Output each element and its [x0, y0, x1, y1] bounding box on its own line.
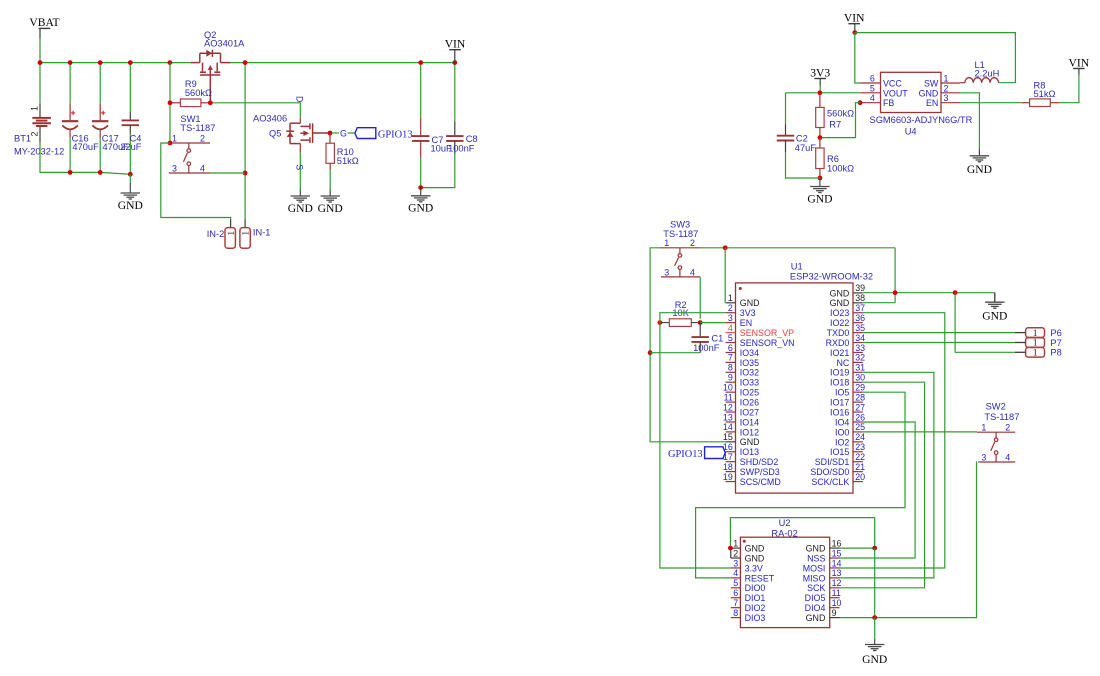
svg-text:IO35: IO35 [740, 358, 759, 368]
U1 pin 38 GND [853, 302, 863, 304]
wire SW3 pin1 gnd to U1 pin15 [650, 248, 726, 442]
U1 pin 6 IO34 [726, 351, 736, 353]
capacitor C16 470uF [69, 63, 71, 104]
svg-text:GND: GND [807, 192, 832, 205]
U1 pin 7 IO35 [726, 361, 736, 363]
svg-text:22: 22 [855, 452, 865, 462]
svg-text:DIO3: DIO3 [745, 613, 766, 623]
U1 pin 25 IO0 [853, 431, 863, 433]
wire VBAT down [39, 39, 41, 63]
svg-text:IO5: IO5 [835, 388, 849, 398]
svg-text:TS-1187: TS-1187 [663, 229, 698, 239]
junction gnd rail / pin38 [893, 290, 898, 295]
svg-text:GND: GND [740, 437, 760, 447]
resistor R6 100k [819, 138, 821, 148]
wire VIN to junction [854, 30, 856, 33]
svg-text:6: 6 [870, 74, 875, 84]
svg-text:30: 30 [855, 373, 865, 383]
svg-text:8: 8 [728, 363, 733, 373]
svg-text:MOSI: MOSI [803, 563, 826, 573]
svg-text:1: 1 [664, 238, 669, 248]
resistor R8 body [1030, 99, 1051, 107]
U1 pin 35 TXD0 [853, 332, 863, 334]
svg-text:DIO0: DIO0 [745, 583, 766, 593]
node G wire to GPIO13 flag [332, 132, 339, 134]
svg-text:3V3: 3V3 [810, 66, 830, 79]
U4 pin 5 VOUT [860, 92, 880, 94]
svg-text:ESP32-WROOM-32: ESP32-WROOM-32 [790, 272, 873, 282]
resistor R9 560k [180, 99, 201, 107]
switch SW3 TS-1187 [660, 248, 700, 277]
U2 pin 3 3.3V [731, 567, 741, 569]
junction SW3 to U1 pin1 [723, 245, 728, 250]
svg-text:1: 1 [981, 423, 986, 433]
U1 pin 10 IO25 [726, 391, 736, 393]
wire Q5 source to gnd [299, 153, 301, 190]
U1 pin 17 SHD/SD2 [726, 461, 736, 463]
U1 pin 16 IO13 [726, 451, 736, 453]
U4 pin 6 VCC [860, 82, 880, 84]
svg-text:FB: FB [883, 98, 894, 108]
U1 pin 21 SDO/SD0 [853, 471, 863, 473]
svg-text:25: 25 [855, 422, 865, 432]
wire U1 pin38 gnd [863, 302, 895, 304]
wire C4 junction to gnd [129, 174, 131, 183]
svg-text:DIO2: DIO2 [745, 603, 766, 613]
U1 pin 29 IO5 [853, 391, 863, 393]
svg-text:GPIO13: GPIO13 [668, 449, 703, 460]
svg-text:3: 3 [664, 267, 669, 277]
svg-text:GPIO13: GPIO13 [378, 130, 413, 141]
wire 3V3 stub [819, 79, 821, 86]
svg-text:27: 27 [855, 402, 865, 412]
svg-text:9: 9 [832, 608, 837, 618]
capacitor C17 470uF [99, 63, 101, 104]
wire gnd to P8 [955, 293, 1015, 353]
svg-text:24: 24 [855, 432, 865, 442]
junction U2 pin1 [728, 546, 733, 551]
svg-text:TS-1187: TS-1187 [984, 412, 1019, 422]
svg-text:6: 6 [733, 588, 738, 598]
svg-text:4: 4 [733, 568, 738, 578]
svg-text:6: 6 [728, 343, 733, 353]
wire R10 to gnd [329, 170, 331, 189]
wire VBAT bus left [40, 62, 191, 64]
svg-text:IN-2: IN-2 [207, 229, 225, 239]
U1 pin 18 SWP/SD3 [726, 471, 736, 473]
svg-text:51kΩ: 51kΩ [337, 156, 359, 166]
battery BT1 MY-2032-12 [39, 63, 41, 104]
U1 pin 2 3V3 [726, 312, 736, 314]
U2 pin 15 NSS [830, 557, 840, 559]
svg-text:IO21: IO21 [830, 348, 849, 358]
resistor R10 51k [329, 133, 331, 143]
svg-text:P7: P7 [1050, 338, 1061, 348]
svg-text:GND: GND [967, 163, 992, 176]
wire R8 to VIN flag [1059, 75, 1079, 103]
ground below U4 [970, 148, 989, 162]
svg-text:3: 3 [981, 452, 986, 462]
svg-text:2: 2 [944, 83, 949, 93]
ground below Q5 [291, 190, 310, 203]
svg-text:GND: GND [745, 544, 765, 554]
svg-text:IO25: IO25 [740, 388, 759, 398]
svg-text:GND: GND [745, 553, 765, 563]
svg-text:1: 1 [728, 293, 733, 303]
junction VIN boost [852, 30, 857, 35]
wire down to U1 pin1 [724, 248, 726, 303]
junction R6 gnd [818, 176, 823, 181]
wire gnd loop over U2 [730, 518, 874, 549]
svg-text:S: S [294, 164, 304, 170]
U1 pin 12 IO27 [726, 411, 736, 413]
junction gnd bus C17 [98, 170, 103, 175]
wire VIN stub [854, 24, 856, 30]
svg-text:16: 16 [832, 538, 842, 548]
svg-text:10: 10 [723, 382, 733, 392]
svg-text:P6: P6 [1050, 328, 1061, 338]
svg-text:9: 9 [728, 373, 733, 383]
svg-text:3.3V: 3.3V [745, 563, 763, 573]
ground right of U1 [985, 293, 1004, 309]
svg-text:47uF: 47uF [795, 143, 817, 153]
svg-text:D: D [295, 96, 305, 102]
wire VOUT to 3V3 rail [786, 92, 861, 94]
svg-text:IO27: IO27 [740, 407, 759, 417]
wire bus to SW1/R9 [169, 63, 171, 143]
svg-text:IO14: IO14 [740, 417, 759, 427]
wire gnd flag stub [994, 293, 996, 302]
junction gnd trunk pin9 [872, 615, 877, 620]
svg-text:2.2uH: 2.2uH [975, 68, 1000, 78]
svg-text:33: 33 [855, 343, 865, 353]
U1 pin 20 SCK/CLK [853, 481, 863, 483]
svg-text:SW2: SW2 [986, 401, 1006, 411]
junction gnd rail / P8 [953, 290, 958, 295]
resistor R10 body [326, 143, 334, 163]
capacitor C2 47uF [785, 93, 787, 125]
wire IO19 to U2 MISO [840, 372, 934, 578]
svg-text:22uF: 22uF [120, 142, 142, 152]
U1 pin 3 EN [726, 322, 736, 324]
svg-text:39: 39 [855, 283, 865, 293]
wire IO4 to U2 NSS [840, 422, 916, 558]
svg-text:GND: GND [919, 88, 939, 98]
junction R2 left 3V3 [658, 320, 663, 325]
ground below R6 [810, 178, 829, 193]
svg-text:R6: R6 [827, 154, 839, 164]
svg-text:U4: U4 [905, 126, 917, 136]
svg-text:19: 19 [723, 472, 733, 482]
svg-text:MY-2032-12: MY-2032-12 [14, 147, 64, 157]
svg-text:GND: GND [862, 653, 887, 666]
svg-text:20: 20 [855, 472, 865, 482]
U2 pin 13 MISO [830, 577, 840, 579]
svg-text:EN: EN [740, 318, 752, 328]
svg-text:GND: GND [806, 544, 826, 554]
svg-text:VCC: VCC [883, 79, 902, 89]
capacitor C7 10uF [420, 63, 422, 118]
svg-text:DIO1: DIO1 [745, 593, 766, 603]
svg-text:IN-1: IN-1 [253, 227, 271, 237]
junction bus C17 [98, 60, 103, 65]
svg-text:GND: GND [288, 202, 313, 215]
svg-text:RXD0: RXD0 [826, 338, 850, 348]
svg-text:21: 21 [855, 462, 865, 472]
U2 pin 11 DIO5 [830, 597, 840, 599]
junction R9 left [168, 100, 173, 105]
junction gnd / C1 [648, 350, 653, 355]
U4 pin 1 SW [941, 82, 960, 84]
U2 pin 2 GND [731, 557, 741, 559]
U1 pin 19 SCS/CMD [726, 481, 736, 483]
U1 pin 27 IO16 [853, 411, 863, 413]
svg-text:G: G [340, 129, 347, 139]
switch SW2 TS-1187 [977, 432, 1015, 462]
wire SW1 pin1 to IN-2 [161, 143, 231, 219]
U2 pin 1 GND [731, 547, 741, 549]
junction R9 right / Q2 gate [208, 100, 213, 105]
svg-text:31: 31 [855, 363, 865, 373]
junction bus VIN flag [452, 60, 457, 65]
connector IN-1 [240, 228, 250, 249]
svg-text:2: 2 [690, 238, 695, 248]
svg-text:2: 2 [1005, 423, 1010, 433]
svg-text:NC: NC [836, 358, 849, 368]
svg-text:GND: GND [118, 199, 143, 212]
svg-text:DIO4: DIO4 [805, 603, 826, 613]
svg-text:5: 5 [733, 578, 738, 588]
wire VIN to VCC pin [855, 33, 861, 83]
junction FB pin [858, 100, 863, 105]
U1 pin 15 GND [726, 441, 736, 443]
wire SW3 pin4 down to EN [699, 277, 701, 319]
svg-text:28: 28 [855, 392, 865, 402]
svg-text:IO32: IO32 [740, 368, 759, 378]
svg-text:10: 10 [832, 598, 842, 608]
svg-text:11: 11 [832, 588, 841, 598]
svg-text:SW: SW [924, 79, 939, 89]
ground below C4 [121, 183, 140, 199]
U2 pin 4 RESET [731, 577, 741, 579]
svg-text:AO3406: AO3406 [253, 113, 287, 123]
wire U2 pin16 gnd [840, 547, 875, 549]
net port GPIO13 (to U1 IO13) [705, 447, 726, 459]
wire U2 pin1-pin2 link [730, 548, 732, 558]
junction Q5 gate / R10 / GPIO13 [328, 131, 333, 136]
U1 pin 34 RXD0 [853, 342, 863, 344]
svg-text:11: 11 [724, 392, 733, 402]
svg-text:U1: U1 [791, 261, 803, 271]
power flag VBAT [39, 27, 51, 29]
wire Q2 drain to SW1 pin4 / IN-1 [244, 63, 246, 219]
svg-text:100nF: 100nF [693, 343, 720, 353]
svg-text:1: 1 [226, 231, 237, 236]
svg-text:35: 35 [855, 323, 865, 333]
svg-text:GND: GND [982, 309, 1007, 322]
wire C7/C8 bottoms [421, 187, 456, 189]
svg-text:BT1: BT1 [14, 133, 31, 143]
svg-text:U2: U2 [779, 518, 791, 528]
svg-text:IO15: IO15 [830, 447, 849, 457]
wire gnd trunk [874, 548, 876, 618]
svg-text:IO33: IO33 [740, 378, 759, 388]
svg-text:IO4: IO4 [835, 417, 849, 427]
svg-text:IO23: IO23 [830, 308, 849, 318]
connector P6 [1026, 328, 1045, 338]
svg-text:13: 13 [723, 412, 733, 422]
U1 pin 31 IO19 [853, 371, 863, 373]
U1 pin 36 IO22 [853, 322, 863, 324]
svg-text:Q5: Q5 [269, 128, 281, 138]
svg-text:IO2: IO2 [835, 437, 849, 447]
junction VBAT bus at battery [38, 60, 43, 65]
U1 pin 22 SDI/SD1 [853, 461, 863, 463]
connector IN-2 [225, 228, 235, 249]
svg-text:7: 7 [728, 353, 733, 363]
svg-text:14: 14 [723, 422, 733, 432]
svg-text:1: 1 [1033, 348, 1038, 359]
svg-text:IO22: IO22 [830, 318, 849, 328]
wire SW1 pin4 to column [210, 172, 245, 174]
svg-text:SGM6603-ADJYN6G/TR: SGM6603-ADJYN6G/TR [870, 115, 973, 125]
resistor R7 body [816, 107, 824, 127]
wire IO23 to U2 MOSI [840, 313, 945, 568]
svg-text:1: 1 [30, 106, 40, 111]
wire VIN bus right of Q2 [230, 62, 454, 64]
junction R2 right EN [698, 320, 703, 325]
wire VBAT stub [39, 28, 41, 38]
capacitor C1 100nF [699, 323, 701, 337]
svg-text:560kΩ: 560kΩ [827, 109, 854, 119]
svg-text:1: 1 [172, 133, 177, 143]
svg-text:15: 15 [832, 548, 842, 558]
svg-text:51kΩ: 51kΩ [1034, 89, 1056, 99]
svg-text:26: 26 [855, 412, 865, 422]
svg-text:2: 2 [200, 133, 205, 143]
wire IO18 to U2 SCK [840, 382, 925, 588]
svg-text:3: 3 [172, 163, 177, 173]
ground below R10 [321, 190, 340, 203]
U2 pin 12 SCK [830, 587, 840, 589]
svg-text:14: 14 [832, 558, 842, 568]
junction bus C4 [128, 60, 133, 65]
svg-text:R7: R7 [829, 119, 841, 129]
wire EN to R8 [960, 102, 1022, 104]
svg-text:EN: EN [926, 98, 938, 108]
svg-text:IO0: IO0 [835, 427, 849, 437]
U4 pin 3 EN [941, 102, 960, 104]
svg-text:2: 2 [728, 303, 733, 313]
svg-text:IO34: IO34 [740, 348, 759, 358]
U1 pin 32 NC [853, 361, 863, 363]
junction SW1 pin4 column [243, 171, 248, 176]
junction bus C7 [418, 60, 423, 65]
net port GPIO13 (near Q5) [355, 128, 376, 139]
U2 pin 7 DIO2 [731, 607, 741, 609]
svg-text:DIO5: DIO5 [805, 593, 826, 603]
ground below U2 [865, 639, 884, 651]
svg-text:GND: GND [806, 613, 826, 623]
U1 pin 24 IO2 [853, 441, 863, 443]
junction gnd bus C16 [68, 170, 73, 175]
svg-text:P8: P8 [1050, 348, 1061, 358]
svg-text:GND: GND [830, 288, 850, 298]
svg-text:1: 1 [241, 231, 252, 236]
power flag 3V3 [814, 78, 826, 80]
junction gnd trunk pin16 [872, 546, 877, 551]
U1 pin 14 IO12 [726, 431, 736, 433]
power flag VIN (boost input) [848, 23, 860, 25]
U1 pin 30 IO18 [853, 381, 863, 383]
U1 pin 33 IO21 [853, 351, 863, 353]
svg-text:560kΩ: 560kΩ [185, 88, 212, 98]
svg-text:4: 4 [870, 93, 875, 103]
svg-text:AO3401A: AO3401A [204, 39, 245, 49]
svg-text:GND: GND [830, 298, 850, 308]
svg-text:4: 4 [728, 323, 733, 333]
svg-text:SENSOR_VP: SENSOR_VP [740, 328, 794, 338]
svg-text:100kΩ: 100kΩ [827, 164, 854, 174]
U2 pin 9 GND [830, 617, 840, 619]
connector P7 [1026, 338, 1045, 348]
U2 pin 6 DIO1 [731, 597, 741, 599]
svg-text:IO16: IO16 [830, 407, 849, 417]
svg-text:VBAT: VBAT [29, 16, 59, 29]
wire FB to divider [820, 103, 860, 138]
wire SW3 pin2 across top [700, 247, 895, 249]
svg-text:4: 4 [1005, 452, 1010, 462]
wire IO0 to SW2 [863, 431, 977, 433]
U1 pin 1 GND [726, 302, 736, 304]
wire 3V3 U1 pin2 to U2 3.3V [660, 313, 731, 568]
svg-text:100nF: 100nF [448, 143, 475, 153]
svg-text:NSS: NSS [807, 553, 825, 563]
U2 pin 14 MOSI [830, 567, 840, 569]
svg-text:SWP/SD3: SWP/SD3 [740, 467, 780, 477]
junction Q2 drain bus [243, 60, 248, 65]
junction 3V3 / R7 [818, 90, 823, 95]
svg-text:3: 3 [733, 558, 738, 568]
U1 pin 11 IO26 [726, 401, 736, 403]
connector P8 [1026, 348, 1045, 358]
resistor R7 560k [819, 93, 821, 108]
svg-text:GND: GND [408, 202, 433, 215]
wire 3V3 down [819, 86, 821, 93]
U2 pin 16 GND [830, 547, 840, 549]
wire battery ground bus [40, 142, 130, 174]
junction C7 gnd [418, 185, 423, 190]
wire TXD0 to P6 [863, 332, 1015, 334]
svg-text:37: 37 [855, 303, 865, 313]
resistor R6 body [816, 148, 824, 169]
svg-text:34: 34 [855, 333, 865, 343]
svg-text:5: 5 [728, 333, 733, 343]
U4 pin 2 GND [941, 92, 960, 94]
resistor R2 body [669, 319, 691, 327]
wire SW2 pin3 to gnd rail [875, 462, 977, 618]
U1 pin 4 SENSOR_VP [726, 332, 736, 334]
wire EN to U1 pin3 [700, 322, 725, 324]
junction SW1 pin1 [168, 141, 173, 146]
capacitor C4 22uF [129, 63, 131, 112]
wire gnd rail vertical [894, 248, 896, 303]
svg-text:SCS/CMD: SCS/CMD [740, 477, 781, 487]
svg-text:VOUT: VOUT [883, 88, 908, 98]
svg-text:SDO/SD0: SDO/SD0 [810, 467, 849, 477]
wire VIN flag stub right [1078, 69, 1080, 75]
svg-text:IO18: IO18 [830, 378, 849, 388]
